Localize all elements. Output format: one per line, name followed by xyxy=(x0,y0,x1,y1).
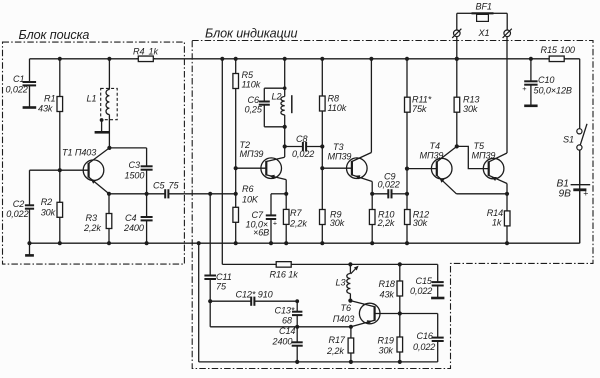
svg-text:R15: R15 xyxy=(541,45,558,55)
svg-text:R16 1k: R16 1k xyxy=(270,269,299,279)
node rail-R1 xyxy=(58,57,62,61)
node tank top xyxy=(283,86,287,90)
node rail-R5 xyxy=(234,57,238,61)
label C5 value xyxy=(169,181,180,191)
wire T2 emitter xyxy=(266,175,286,194)
capacitor C4 xyxy=(141,194,153,243)
wire C5 to T2 base node xyxy=(168,193,235,195)
capacitor C1 xyxy=(23,59,37,107)
wire right rail to S1 xyxy=(579,59,581,129)
node rail-T3col xyxy=(369,57,373,61)
wire C12 row right xyxy=(254,300,297,302)
svg-text:C5: C5 xyxy=(153,181,165,191)
node base-R1-R2 xyxy=(58,168,62,172)
svg-text:30k: 30k xyxy=(41,207,56,217)
label C15 value xyxy=(410,286,432,296)
svg-text:C11: C11 xyxy=(216,272,232,282)
wire T4 emitter xyxy=(437,175,457,194)
node rail-X1 xyxy=(455,57,459,61)
svg-text:C3: C3 xyxy=(129,160,140,170)
label R18 xyxy=(379,279,395,289)
emitter arrow T4 xyxy=(439,178,444,183)
label R11 value xyxy=(412,104,427,114)
svg-text:C2: C2 xyxy=(13,199,24,209)
inductor L1 coil xyxy=(106,90,109,115)
label C13 value xyxy=(282,316,292,326)
wire R16 row xyxy=(291,263,438,265)
wire T1 collector xyxy=(89,148,110,164)
svg-text:50,0×12В: 50,0×12В xyxy=(534,86,572,96)
wire R7 branch xyxy=(285,194,287,243)
svg-text:МП39: МП39 xyxy=(472,150,496,160)
wire C8 row left xyxy=(285,146,303,148)
svg-text:R18: R18 xyxy=(379,279,395,289)
capacitor C3 xyxy=(141,148,153,194)
label R13 xyxy=(463,95,479,105)
label T6 xyxy=(341,303,352,313)
wire tank bottom link xyxy=(264,126,284,128)
node C3 bottom xyxy=(145,192,149,196)
label C14 xyxy=(279,326,295,336)
emitter arrow T6 xyxy=(367,320,373,324)
svg-text:C6: C6 xyxy=(248,95,260,105)
label R6 xyxy=(242,184,254,194)
transistor T5 xyxy=(483,158,504,179)
wire R18/R19 branch xyxy=(399,264,401,362)
label C16 value xyxy=(413,342,435,352)
label C10 value xyxy=(534,86,572,96)
svg-text:L3: L3 xyxy=(336,278,346,288)
label T3 xyxy=(333,142,343,152)
shield box of L1 xyxy=(101,88,118,119)
label R1 value xyxy=(38,103,53,113)
wire emitter row to C5 xyxy=(109,193,165,195)
svg-text:0,022: 0,022 xyxy=(378,180,400,190)
label R16 xyxy=(270,269,299,279)
wire tank top link xyxy=(264,88,284,101)
wire L3 upper lead xyxy=(349,264,351,273)
wire emitter to C7 xyxy=(271,194,286,216)
emitter arrow T2 xyxy=(269,175,275,179)
svg-text:1k: 1k xyxy=(492,218,502,228)
node R7-gnd xyxy=(284,241,288,245)
svg-text:R13: R13 xyxy=(463,95,479,105)
wire X1 left upper xyxy=(457,13,472,30)
label R7 xyxy=(290,208,302,218)
label C14 value xyxy=(272,337,293,347)
svg-text:2400: 2400 xyxy=(123,223,144,233)
wire R5/R6 branch xyxy=(235,59,237,243)
label T5 xyxy=(474,141,485,151)
capacitor C2 xyxy=(25,170,34,243)
svg-text:R8: R8 xyxy=(328,94,339,104)
resistor R4 xyxy=(136,56,155,62)
headphone BF1 xyxy=(472,13,494,21)
wire base row to C16 xyxy=(400,313,438,315)
svg-text:1500: 1500 xyxy=(125,170,145,180)
connector X1 left pin xyxy=(452,29,461,38)
svg-text:R3: R3 xyxy=(86,213,97,223)
svg-text:C12* 910: C12* 910 xyxy=(236,289,273,299)
label C6 xyxy=(248,95,260,105)
svg-text:МП39: МП39 xyxy=(240,149,264,159)
transistor T1 xyxy=(83,160,104,181)
label R11 xyxy=(412,95,432,105)
resistor R1 xyxy=(57,97,63,112)
label T1 xyxy=(62,148,96,158)
svg-text:110k: 110k xyxy=(328,103,347,113)
node C12row-C13 xyxy=(295,299,299,303)
resistor R7 xyxy=(283,209,289,224)
emitter arrow T5 xyxy=(491,177,497,181)
wire C9 row left xyxy=(372,193,388,195)
label R1 xyxy=(44,93,55,103)
wire C9 row right xyxy=(392,193,408,195)
resistor R11 xyxy=(405,97,411,112)
chassis bar of L1 shield xyxy=(95,131,110,134)
svg-text:C1: C1 xyxy=(13,74,24,84)
wire R11/R12 branch xyxy=(406,59,408,243)
svg-text:30k: 30k xyxy=(463,104,478,114)
wire T6 base lead xyxy=(375,313,400,315)
wire T2 base lead xyxy=(236,167,267,169)
wire feed line down xyxy=(222,59,276,265)
svg-text:Т1 П403: Т1 П403 xyxy=(62,148,96,158)
node C14-bot xyxy=(295,360,299,364)
svg-text:2,2k: 2,2k xyxy=(289,219,307,229)
svg-text:1k: 1k xyxy=(149,47,159,57)
inductor L3 coil xyxy=(347,274,351,294)
resistor R10 xyxy=(369,210,375,225)
node rail feed line xyxy=(220,57,224,61)
wire left drop xyxy=(198,243,200,362)
svg-text:R4: R4 xyxy=(133,47,144,57)
label R2 xyxy=(41,197,52,207)
svg-text:0,022: 0,022 xyxy=(6,209,28,219)
resistor R19 xyxy=(397,337,403,352)
connector X1 right pin xyxy=(503,29,512,38)
svg-text:×6В: ×6В xyxy=(253,228,269,238)
wire T4 collector xyxy=(437,146,457,162)
label R8 value xyxy=(328,103,347,113)
node R9-gnd xyxy=(320,241,324,245)
svg-text:Блок поиска: Блок поиска xyxy=(19,28,90,42)
label C11 value xyxy=(216,282,227,292)
svg-text:75: 75 xyxy=(216,282,227,292)
svg-text:C13*: C13* xyxy=(275,306,295,316)
wire right rail B1 to ground rail xyxy=(579,150,581,243)
svg-text:C14: C14 xyxy=(279,326,295,336)
wire X1 left lead xyxy=(456,37,458,59)
svg-text:R19: R19 xyxy=(378,336,394,346)
label C2 value xyxy=(6,209,28,219)
chassis bar of C1 xyxy=(23,106,37,109)
svg-text:S1: S1 xyxy=(563,135,574,145)
svg-text:R2: R2 xyxy=(41,197,52,207)
emitter arrow T3 xyxy=(355,175,361,179)
node R18 top xyxy=(398,262,402,266)
svg-text:R17: R17 xyxy=(329,335,346,345)
label C11 xyxy=(216,272,232,282)
label C5 xyxy=(153,181,165,191)
label R9 value xyxy=(330,218,345,228)
resistor R12 xyxy=(405,210,411,225)
label R17 value xyxy=(326,346,344,356)
plus of C10 xyxy=(522,84,526,93)
wire T3 base lead xyxy=(322,167,352,169)
svg-text:R5: R5 xyxy=(242,70,254,80)
label R18 value xyxy=(380,290,395,300)
wire C12 row left xyxy=(210,300,251,302)
wire R8/R9 branch xyxy=(321,59,323,243)
label C3 value xyxy=(125,170,145,180)
wire C8 row right xyxy=(306,146,322,148)
resistor R16 xyxy=(276,262,291,268)
wire T6 emitter xyxy=(351,320,375,327)
svg-text:+: + xyxy=(273,218,277,227)
wire T1 emitter xyxy=(89,177,109,194)
chassis ground symbol xyxy=(25,243,34,255)
resistor R18 xyxy=(397,281,403,296)
label R3 xyxy=(86,213,97,223)
label C15 xyxy=(416,276,433,286)
label R8 xyxy=(328,94,339,104)
label T4 type xyxy=(420,150,444,160)
wire R3 branch xyxy=(108,194,110,243)
label T2 xyxy=(240,140,250,150)
resistor R9 xyxy=(320,210,326,225)
capacitor C8 xyxy=(303,142,306,151)
svg-text:L1: L1 xyxy=(87,94,97,104)
label T6 type xyxy=(333,314,354,324)
label B1 value xyxy=(559,189,572,200)
svg-text:X1: X1 xyxy=(478,28,490,38)
svg-text:68: 68 xyxy=(282,316,292,326)
wire C13 row left xyxy=(210,326,297,328)
label T5 type xyxy=(472,150,496,160)
label C3 xyxy=(129,160,140,170)
node T1 collector xyxy=(107,146,111,150)
node rail-tank xyxy=(283,57,287,61)
node T1 emitter xyxy=(107,192,111,196)
capacitor C6 xyxy=(259,102,270,127)
transistor T3 xyxy=(347,158,368,179)
wire R10 branch xyxy=(371,194,373,243)
capacitor C14 xyxy=(292,327,303,362)
svg-text:C15: C15 xyxy=(416,276,433,286)
node T6 emitter xyxy=(349,325,353,329)
wire collector node to C3 xyxy=(109,147,146,149)
svg-text:+: + xyxy=(522,84,526,93)
label R10 xyxy=(378,209,394,219)
resistor R3 xyxy=(106,214,112,229)
svg-text:2400: 2400 xyxy=(272,337,293,347)
label R7 value xyxy=(289,219,307,229)
svg-text:30k: 30k xyxy=(330,218,345,228)
node gnd drop left xyxy=(197,241,201,245)
label BF1 xyxy=(476,2,492,12)
transistor T2 xyxy=(261,158,282,179)
node T2 base xyxy=(234,166,238,170)
svg-text:0,022: 0,022 xyxy=(410,286,432,296)
node C5 row joins branch xyxy=(234,192,238,196)
capacitor C12 xyxy=(251,297,254,306)
wire tank to T2 collector xyxy=(284,115,286,157)
wire emitter row T4-T5 xyxy=(456,193,507,195)
wire T3 collector branch xyxy=(370,59,372,153)
label Блок поиска xyxy=(19,28,90,42)
svg-text:R11*: R11* xyxy=(412,95,432,105)
label C8 value xyxy=(292,149,314,159)
svg-text:9В: 9В xyxy=(559,189,572,200)
wire C13 row right xyxy=(297,326,351,328)
wire L3 lower lead xyxy=(349,294,351,301)
resistor R17 xyxy=(348,338,354,353)
node R2-gnd xyxy=(58,241,62,245)
label R5 value xyxy=(242,80,261,90)
wire T3 emitter xyxy=(352,175,372,194)
label B1 xyxy=(557,178,569,189)
resistor R6 xyxy=(233,207,239,222)
resistor R5 xyxy=(233,74,239,89)
node C13-row xyxy=(295,325,299,329)
transistor T6 xyxy=(359,303,380,324)
capacitor C13 xyxy=(292,301,302,327)
wire T6 collector xyxy=(350,301,374,307)
transistor T4 xyxy=(431,158,452,179)
wire B1 top lead xyxy=(579,150,581,185)
resistor R2 xyxy=(57,202,63,217)
node T6 base row xyxy=(398,311,402,315)
node R12-gnd xyxy=(405,241,409,245)
wire T5 emitter xyxy=(489,175,507,194)
wire ground rail xyxy=(30,242,580,244)
node R10-gnd xyxy=(370,241,374,245)
label R4 value xyxy=(149,47,159,57)
capacitor C11 xyxy=(204,276,216,302)
svg-text:МП39: МП39 xyxy=(328,151,352,161)
capacitor C10 electrolytic xyxy=(524,59,537,105)
svg-text:75: 75 xyxy=(169,181,180,191)
label R4 xyxy=(133,47,144,57)
node C2-gnd xyxy=(27,241,31,245)
svg-text:C4: C4 xyxy=(125,213,136,223)
svg-text:0,022: 0,022 xyxy=(6,85,28,95)
svg-text:43k: 43k xyxy=(380,290,395,300)
svg-text:0,022: 0,022 xyxy=(292,149,314,159)
wire top supply rail xyxy=(30,58,580,60)
label R9 xyxy=(330,209,341,219)
label R12 xyxy=(413,209,429,219)
resistor R15 xyxy=(549,56,564,62)
label R15 xyxy=(541,45,558,55)
label T2 type xyxy=(240,149,264,159)
plus of B1 xyxy=(583,188,588,198)
svg-text:Т6: Т6 xyxy=(341,303,352,313)
label C7 value2 xyxy=(253,228,269,238)
label C8 xyxy=(296,134,307,144)
node C4-gnd xyxy=(145,241,149,245)
node T3 base xyxy=(320,166,324,170)
wire T4col to T5 base xyxy=(457,146,489,168)
indication block dashed border xyxy=(192,41,593,369)
svg-text:110k: 110k xyxy=(242,80,261,90)
node T5 emitter xyxy=(505,192,509,196)
wire T3 collector xyxy=(352,153,372,162)
node R3-gnd xyxy=(107,241,111,245)
svg-text:C8: C8 xyxy=(296,134,307,144)
svg-text:10K: 10K xyxy=(242,195,259,205)
label L2 xyxy=(272,92,282,102)
emitter arrow T1 xyxy=(91,179,96,184)
node C7-gnd xyxy=(269,241,273,245)
label C2 xyxy=(13,199,24,209)
resistor R14 xyxy=(504,211,510,226)
node T4 collector xyxy=(455,144,459,148)
svg-text:43k: 43k xyxy=(38,103,53,113)
search block dashed border xyxy=(3,42,185,264)
wire T2 collector xyxy=(266,157,284,161)
wire L1 branch upper xyxy=(108,59,110,90)
svg-text:2,2k: 2,2k xyxy=(83,223,101,233)
label C1 value xyxy=(6,85,28,95)
label C16 xyxy=(417,331,434,341)
label C10 xyxy=(538,75,554,85)
svg-text:30k: 30k xyxy=(379,346,394,356)
svg-text:+: + xyxy=(583,188,588,198)
label C13 xyxy=(275,306,295,316)
wire bottom rail xyxy=(199,361,438,363)
label R14 value xyxy=(492,218,502,228)
label R5 xyxy=(242,70,254,80)
node C8 left xyxy=(283,144,287,148)
label C4 xyxy=(125,213,136,223)
svg-text:R7: R7 xyxy=(290,208,302,218)
node rail-L1 xyxy=(107,57,111,61)
shield tap dot xyxy=(100,118,104,122)
label R19 value xyxy=(379,346,394,356)
wire tank branch upper xyxy=(284,59,286,97)
svg-text:R6: R6 xyxy=(242,184,254,194)
label C4 value xyxy=(123,223,144,233)
label R14 xyxy=(487,208,503,218)
resistor R8 xyxy=(320,96,326,111)
node rail-R11 xyxy=(405,57,409,61)
node T3 emitter xyxy=(370,192,374,196)
node L3 top xyxy=(348,262,352,266)
label X1 xyxy=(478,28,490,38)
svg-text:C10: C10 xyxy=(538,75,554,85)
capacitor C15 xyxy=(432,264,444,297)
node T4 base xyxy=(405,167,409,171)
label R2 value xyxy=(41,207,56,217)
wire shield tap xyxy=(101,120,103,132)
node tank bottom xyxy=(283,125,287,129)
battery B1 xyxy=(571,185,591,190)
resistor R13 xyxy=(454,97,460,112)
adjust arrow L3 xyxy=(351,266,359,274)
svg-text:П403: П403 xyxy=(333,314,354,324)
svg-text:C16: C16 xyxy=(417,331,434,341)
svg-text:75k: 75k xyxy=(412,104,427,114)
label C6 value xyxy=(245,105,263,115)
svg-text:0,25: 0,25 xyxy=(245,105,263,115)
capacitor C5 xyxy=(165,189,168,198)
capacitor C7 electrolytic xyxy=(266,215,276,243)
svg-text:BF1: BF1 xyxy=(476,2,492,12)
node C8 right xyxy=(320,144,324,148)
node L3-T6 collector xyxy=(348,299,352,303)
